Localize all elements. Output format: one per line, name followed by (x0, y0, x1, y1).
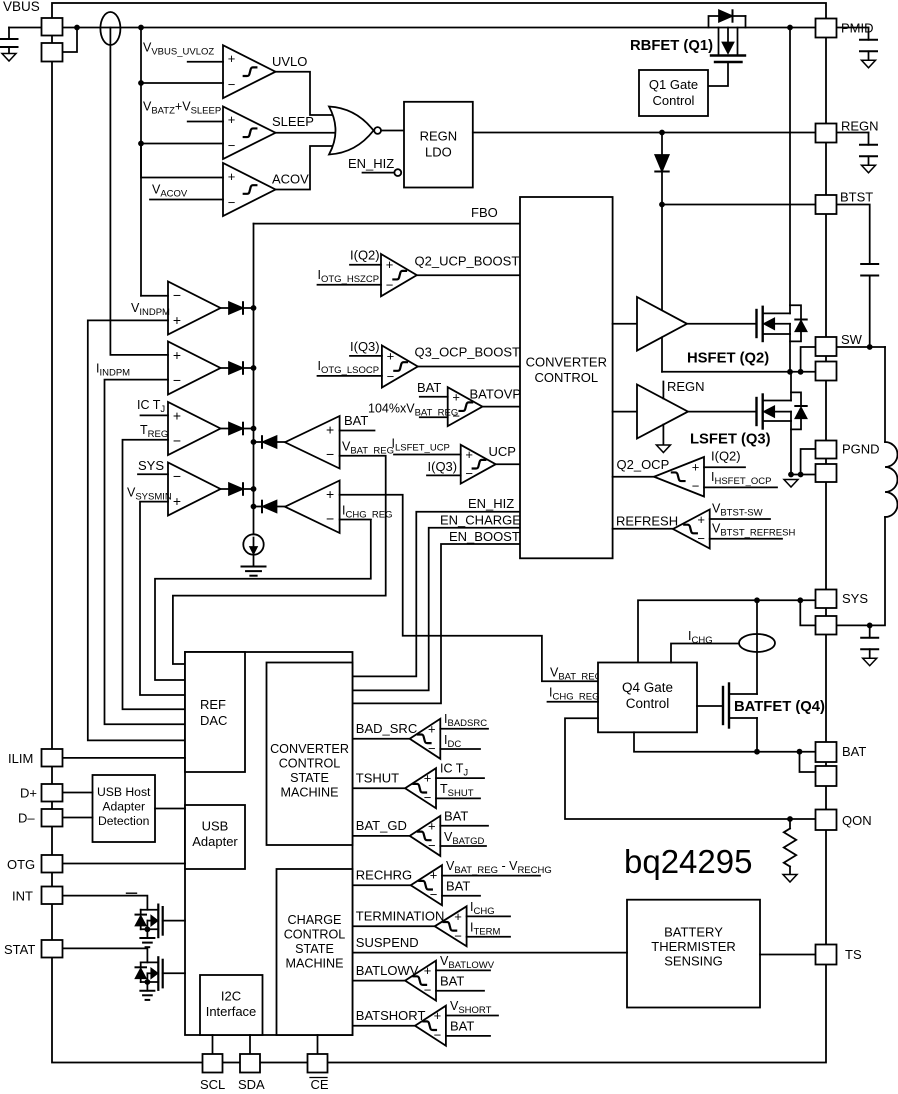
wire BTST line (662, 204, 816, 206)
svg-text:BAT: BAT (344, 413, 368, 428)
svg-text:Q2_UCP_BOOST: Q2_UCP_BOOST (415, 254, 520, 269)
capacitor SYS (869, 625, 871, 637)
svg-text:EN_HIZ: EN_HIZ (348, 156, 394, 171)
svg-text:+: + (228, 169, 236, 184)
svg-text:TERMINATION: TERMINATION (356, 909, 445, 924)
wire SLEEP plus input (188, 121, 223, 123)
transistor STAT open-drain (63, 948, 148, 962)
comparator UCP (461, 445, 496, 484)
pin D- (42, 809, 63, 827)
ground (LS driver) (656, 445, 670, 453)
svg-text:Q1 Gate: Q1 Gate (649, 77, 698, 92)
block USB Host Adapter Detection (93, 775, 156, 842)
svg-text:Control: Control (626, 696, 670, 711)
current sense ellipse I_CHG (739, 634, 775, 652)
node BTST junction (659, 202, 665, 208)
wire EN_BOOST (353, 544, 520, 703)
svg-text:+: + (424, 963, 432, 978)
svg-text:SUSPEND: SUSPEND (356, 935, 419, 950)
wire Q3 OCP minus input (318, 375, 382, 377)
comparator Q2_OCP (654, 457, 704, 497)
wire LS driver input (613, 411, 637, 413)
svg-text:−: − (326, 446, 334, 462)
svg-text:LSFET (Q3): LSFET (Q3) (690, 432, 771, 448)
svg-text:RBFET (Q1): RBFET (Q1) (630, 38, 713, 54)
svg-text:LDO: LDO (425, 145, 452, 160)
wire Q1 gate (708, 62, 728, 86)
svg-text:+: + (173, 493, 181, 509)
comparator ACOV (223, 163, 276, 216)
wire BATFET gate (697, 705, 723, 707)
svg-text:TSHUT: TSHUT (356, 770, 399, 785)
diode to ICHG amp (254, 506, 263, 508)
svg-text:+: + (228, 51, 236, 66)
svg-text:D+: D+ (20, 786, 37, 801)
wire Q4 to SYS (638, 600, 816, 662)
svg-text:−: − (228, 195, 236, 210)
svg-text:EN_BOOST: EN_BOOST (449, 529, 520, 544)
diode SYS amp output (221, 488, 230, 490)
wire Q3_OCP_BOOST output (418, 366, 520, 368)
wire TSHUT minus input (436, 797, 480, 799)
ground (power ground) (784, 480, 798, 488)
node BAT junction 2 (797, 749, 803, 755)
svg-text:BATOVP: BATOVP (470, 387, 522, 402)
wire SW to inductor (837, 346, 886, 348)
svg-text:CONTROL: CONTROL (535, 370, 599, 385)
svg-text:−: − (692, 479, 700, 494)
wire inductor top (884, 347, 886, 442)
svg-text:+: + (465, 447, 473, 462)
svg-text:−: − (173, 372, 181, 388)
svg-text:UVLO: UVLO (272, 54, 307, 69)
ground (QON resistor) (783, 875, 797, 883)
pin BAT (box 2) (816, 766, 837, 786)
svg-text:REGN: REGN (420, 129, 458, 144)
svg-text:QON: QON (842, 813, 872, 828)
wire BATLOWV minus input (436, 990, 484, 992)
wire V_BAT_REG reference (173, 456, 386, 664)
block Q4 Gate Control (598, 663, 697, 733)
wire VBUS cap to VBUS pin (9, 27, 42, 29)
wire I_INDPM minus input (105, 380, 186, 725)
svg-text:D–: D– (18, 811, 35, 826)
op-amp charge current amp (285, 481, 340, 534)
wire IC TJ stub (141, 414, 169, 416)
wire BAT stub (340, 430, 375, 432)
wire ACOV minus input (150, 199, 223, 201)
wire BATOVP output (482, 406, 520, 408)
wire REFRESH minus input (710, 538, 782, 540)
pin TS (816, 945, 837, 965)
svg-text:BAT: BAT (446, 879, 470, 894)
diode I_INDPM output (221, 367, 230, 369)
svg-text:I2C: I2C (221, 989, 241, 1004)
pin STAT (42, 940, 63, 958)
wire REGN stub (LS driver) (662, 382, 664, 399)
svg-text:I(Q3): I(Q3) (350, 339, 380, 354)
wire BAD_SRC plus input (440, 728, 488, 730)
wire VBUS rail (top horizontal) (63, 27, 816, 29)
pin SYS (box 2) (816, 616, 837, 635)
svg-text:+: + (428, 818, 436, 833)
svg-text:SCL: SCL (200, 1077, 225, 1092)
wire USB host to core (155, 808, 185, 810)
wire UCP plus input (394, 454, 461, 456)
wire Q4 charge-current sense (671, 644, 739, 663)
svg-text:FBO: FBO (471, 205, 498, 220)
transistor LSFET Q3 (755, 398, 757, 425)
wire UCP output (496, 463, 520, 465)
comparator REFRESH (673, 510, 710, 549)
current source (minimum system) (243, 534, 263, 554)
pin PGND (box 2) (816, 464, 837, 482)
svg-text:BATTERY: BATTERY (664, 925, 723, 940)
diode V_INDPM output (221, 307, 230, 309)
wire NOR output (381, 130, 404, 132)
wire BAD_SRC minus input (440, 748, 480, 750)
svg-text:REFRESH: REFRESH (616, 514, 678, 529)
node SW junction 1 (787, 369, 793, 375)
svg-text:BTST: BTST (840, 190, 873, 205)
svg-text:BATSHORT: BATSHORT (356, 1008, 426, 1023)
svg-text:SLEEP: SLEEP (272, 114, 314, 129)
pin PGND (box 1) (816, 441, 837, 459)
pin SDA (240, 1054, 260, 1073)
block REF DAC (185, 652, 245, 772)
node SYS junction 2 (797, 597, 803, 603)
wire SYS stub (138, 473, 168, 475)
svg-text:REF: REF (200, 697, 226, 712)
wire QON net (565, 718, 816, 819)
wire SYS pin2 link (800, 600, 815, 625)
pin BAT (box 1) (816, 742, 837, 762)
wire SW pin1 link (801, 347, 816, 372)
comparator Q2_UCP_BOOST (381, 254, 417, 296)
node UVLO minus tap (138, 80, 144, 86)
svg-text:BAT: BAT (450, 1019, 474, 1034)
wire inductor bottom (837, 517, 886, 625)
pin VBUS (box 2) (42, 43, 63, 62)
svg-text:UCP: UCP (489, 444, 516, 459)
wire LS driver output (688, 411, 756, 413)
ground (VBUS cap) (2, 54, 16, 62)
wire BATSHORT plus input (446, 1015, 498, 1017)
wire BAT_GD plus input (440, 825, 488, 827)
svg-text:Q4 Gate: Q4 Gate (622, 680, 673, 695)
op-amp BAT voltage amp (285, 416, 340, 469)
node SYS junction 1 (754, 597, 760, 603)
svg-text:+: + (434, 1008, 442, 1023)
wire PGND pin1 link (801, 449, 816, 475)
svg-text:STATE: STATE (295, 942, 334, 956)
svg-text:+: + (173, 347, 181, 363)
wire CE (317, 1035, 319, 1054)
wire SW net (662, 371, 816, 373)
wire ILIM (63, 757, 186, 759)
wire BAT pin2 link (800, 752, 816, 772)
wire LS driver ground stub (662, 425, 664, 446)
wire Q2_OCP output (613, 476, 654, 478)
svg-text:−: − (173, 468, 181, 484)
svg-text:PMID: PMID (841, 21, 874, 36)
svg-text:SDA: SDA (238, 1077, 265, 1092)
node REGN diode tap (659, 130, 665, 136)
wire thermistor to TS (760, 954, 816, 956)
node VBUS junction 1 (74, 25, 80, 31)
wire BATSHORT minus input (446, 1035, 490, 1037)
svg-text:−: − (228, 138, 236, 153)
pin BTST (816, 195, 837, 214)
wire error-amp bus vertical (253, 224, 255, 535)
wire TSHUT plus input (436, 777, 484, 779)
wire T_REG input (123, 440, 186, 710)
svg-text:PGND: PGND (842, 442, 880, 457)
svg-text:Q2_OCP: Q2_OCP (617, 457, 670, 472)
pin D+ (42, 784, 63, 802)
wire ACOV output (276, 146, 335, 190)
svg-text:−: − (173, 287, 181, 303)
ground (current source) (242, 566, 266, 568)
wire Q2 UCP plus input (350, 264, 381, 266)
svg-text:TS: TS (845, 947, 862, 962)
svg-text:CONTROL: CONTROL (284, 928, 346, 942)
wire TERMINATION minus input (467, 936, 510, 938)
block I2C Interface (200, 975, 263, 1035)
wire FBO (254, 223, 521, 225)
node QON junction (787, 816, 793, 822)
resistor QON pull (789, 819, 791, 829)
svg-text:CHARGE: CHARGE (288, 913, 342, 927)
pin QON (816, 810, 837, 831)
block REGN LDO (404, 102, 473, 188)
node bus junction 5 (251, 439, 257, 445)
wire VBUS pin2 link (63, 28, 78, 53)
VBUS input capacitor (8, 28, 10, 40)
node PGND junction 2 (798, 472, 804, 478)
svg-text:+: + (428, 721, 436, 736)
svg-text:SW: SW (841, 332, 863, 347)
svg-text:+: + (173, 408, 181, 424)
input current sense ellipse (100, 12, 120, 45)
buffer LS gate driver (637, 385, 688, 439)
svg-text:RECHRG: RECHRG (356, 867, 412, 882)
svg-text:MACHINE: MACHINE (280, 786, 338, 800)
buffer HS gate driver (637, 297, 687, 351)
wire EN_CHARGE (353, 528, 520, 691)
svg-text:BAD_SRC: BAD_SRC (356, 721, 417, 736)
wire REGN line (473, 132, 816, 134)
wire BATFET drain (756, 600, 758, 694)
wire VBUS sense vertical (140, 28, 142, 296)
svg-text:CONVERTER: CONVERTER (270, 742, 349, 756)
wire I_INDPM plus input (110, 28, 168, 355)
transistor RBFET Q1 (709, 16, 720, 28)
svg-text:CONTROL: CONTROL (279, 757, 341, 771)
node VBUS junction 2 (138, 25, 144, 31)
svg-text:−: − (697, 531, 705, 546)
svg-text:I(Q3): I(Q3) (428, 459, 458, 474)
svg-text:MACHINE: MACHINE (285, 957, 343, 971)
op-amp SYS min amp (168, 463, 221, 516)
block BATTERY THERMISTER SENSING (627, 900, 760, 1008)
op-amp thermal regulation amp (168, 402, 221, 455)
svg-text:bq24295: bq24295 (624, 843, 752, 880)
node SW junction 2 (798, 369, 804, 375)
wire EN_HIZ (353, 512, 520, 677)
wire REFRESH output (613, 528, 673, 530)
comparator SLEEP (223, 107, 276, 160)
svg-text:+: + (326, 422, 334, 438)
wire D+ to USB host (63, 792, 93, 794)
wire SUSPEND (353, 952, 627, 954)
wire I_CHG_REG stub (548, 701, 599, 703)
svg-text:ACOV: ACOV (272, 172, 309, 187)
pin PMID (816, 19, 837, 38)
node SLEEP minus tap (138, 141, 144, 147)
wire ACOV plus input (141, 144, 223, 178)
svg-text:−: − (173, 433, 181, 449)
svg-text:BATFET (Q4): BATFET (Q4) (734, 699, 825, 715)
svg-text:Adapter: Adapter (102, 800, 145, 814)
wire charge amp plus to Q4 (340, 495, 598, 682)
svg-text:+: + (326, 486, 334, 502)
svg-text:Control: Control (653, 93, 695, 108)
block CHARGE CONTROL STATE MACHINE (277, 869, 353, 1035)
svg-text:+: + (173, 312, 181, 328)
pin SW (box 2) (816, 362, 837, 381)
wire Q3 OCP plus input (350, 355, 382, 357)
diode REGN to BTST (661, 133, 663, 156)
block CONVERTER CONTROL (520, 197, 613, 558)
diode thermal amp output (221, 428, 230, 430)
wire HS driver input (613, 323, 637, 325)
wire TERMINATION plus input (467, 915, 510, 917)
wire RECHRG minus input (442, 895, 480, 897)
block Q1 Gate Control (639, 70, 708, 116)
svg-text:STAT: STAT (4, 942, 35, 957)
node bus junction 4 (251, 486, 257, 492)
block digital core (185, 652, 353, 1035)
wire Q2_OCP minus input (704, 486, 777, 488)
wire D- to USB host (63, 817, 93, 819)
svg-text:VBUS: VBUS (3, 0, 40, 14)
wire SLEEP minus input (141, 143, 223, 145)
wire I_CHG_REG reference (155, 520, 371, 681)
wire RECHRG plus input (442, 875, 540, 877)
comparator BATOVP (448, 387, 483, 426)
pin SW (box 1) (816, 337, 837, 356)
inductor L1 (885, 442, 897, 517)
node bus junction 6 (251, 504, 257, 510)
svg-text:I(Q2): I(Q2) (711, 449, 741, 464)
wire BATLOWV plus input (436, 969, 490, 971)
svg-text:ILIM: ILIM (8, 751, 33, 766)
pin REGN (816, 124, 837, 143)
pin SYS (box 1) (816, 590, 837, 609)
svg-text:BATLOWV: BATLOWV (356, 963, 419, 978)
wire EN_HIZ input with bubble (363, 172, 395, 174)
pin INT (42, 887, 63, 905)
svg-text:Q3_OCP_BOOST: Q3_OCP_BOOST (415, 345, 521, 360)
node BAT junction 1 (754, 749, 760, 755)
svg-text:REGN: REGN (667, 379, 705, 394)
svg-text:SYS: SYS (842, 591, 868, 606)
wire Q4 to BAT (634, 732, 816, 751)
pin VBUS (box 1) (42, 18, 63, 36)
svg-text:−: − (386, 278, 394, 293)
node PGND junction 1 (788, 472, 794, 478)
node bus junction 2 (251, 365, 257, 371)
svg-text:+: + (692, 459, 700, 474)
svg-text:BAT_GD: BAT_GD (356, 818, 407, 833)
svg-text:+: + (697, 512, 705, 527)
pin ILIM (42, 749, 63, 767)
capacitor PMID (837, 27, 869, 29)
capacitor REGN (837, 132, 869, 134)
wire V_INDPM plus input (88, 320, 185, 740)
svg-text:+: + (386, 257, 394, 272)
svg-text:BAT: BAT (417, 380, 441, 395)
svg-text:−: − (326, 511, 334, 527)
svg-text:REGN: REGN (841, 119, 879, 134)
wire SDA (249, 1035, 251, 1054)
wire BATOVP plus input (420, 396, 448, 398)
transistor BATFET Q4 (722, 687, 724, 724)
transistor INT open-drain (63, 896, 148, 910)
svg-text:I(Q2): I(Q2) (350, 248, 380, 263)
block USB Adapter (185, 805, 245, 869)
wire OTG (63, 863, 186, 865)
wire REFRESH plus input (710, 518, 770, 520)
svg-text:BAT: BAT (842, 744, 866, 759)
svg-text:THERMISTER: THERMISTER (651, 939, 736, 954)
wire V_SYSMIN input (140, 502, 185, 695)
svg-text:Adapter: Adapter (192, 834, 238, 849)
svg-text:OTG: OTG (7, 857, 35, 872)
wire Q2 UCP minus input (318, 284, 382, 286)
op-amp I_INDPM error amp (168, 342, 221, 395)
svg-text:SENSING: SENSING (664, 954, 723, 969)
pin CE (308, 1054, 328, 1073)
wire BTST to HS driver (661, 205, 663, 311)
wire UVLO minus input (141, 82, 223, 84)
svg-text:−: − (228, 77, 236, 92)
capacitor BTST (837, 205, 870, 265)
wire UVLO plus input (188, 61, 223, 63)
svg-text:CONVERTER: CONVERTER (526, 355, 607, 370)
svg-text:USB: USB (202, 819, 229, 834)
wire SCL (212, 1035, 214, 1054)
wire SLEEP output (276, 132, 337, 134)
wire UVLO output (276, 72, 335, 115)
wire HS driver output (687, 323, 756, 325)
svg-text:BAT: BAT (444, 809, 468, 824)
svg-text:−: − (387, 369, 395, 384)
wire INT tick (127, 892, 137, 894)
block CONVERTER CONTROL STATE MACHINE (267, 663, 353, 846)
pin OTG (42, 855, 63, 873)
node PMID junction (787, 25, 793, 31)
svg-text:+: + (228, 112, 236, 127)
svg-text:SYS: SYS (138, 458, 164, 473)
svg-text:EN_CHARGE: EN_CHARGE (440, 513, 521, 528)
svg-text:Interface: Interface (206, 1004, 257, 1019)
diode to BAT amp (254, 441, 263, 443)
svg-text:CE: CE (311, 1077, 329, 1092)
comparator Q3_OCP_BOOST (382, 346, 418, 388)
comparator UVLO (223, 45, 276, 98)
